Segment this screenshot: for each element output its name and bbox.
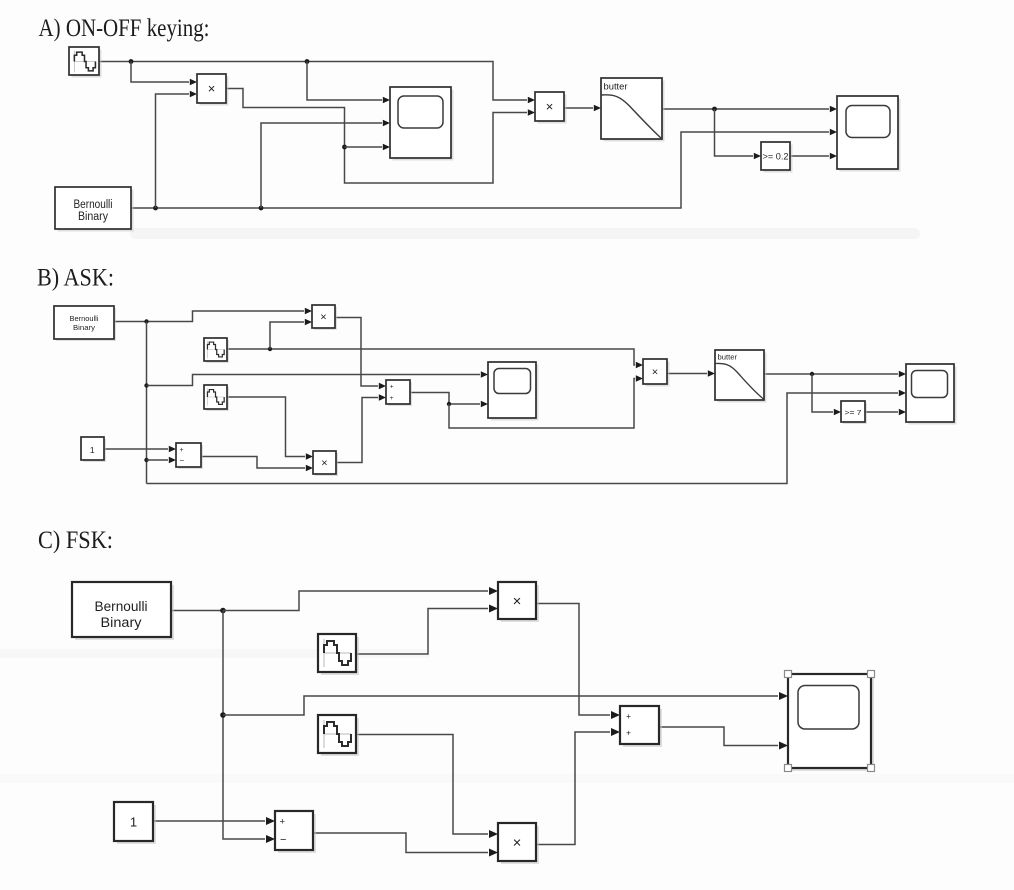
wire: subtract B output to product B2 in2 (201, 457, 313, 472)
scope C (788, 674, 874, 771)
svg-text:+: + (180, 447, 184, 454)
wire: subtract C output to product C2 in2 (313, 833, 498, 857)
wire: butter B output to scope B2 in1 (764, 371, 906, 378)
Bernoulli Binary A (55, 187, 134, 232)
svg-text:B) ASK:: B) ASK: (37, 265, 114, 292)
svg-text:×: × (546, 99, 554, 114)
wire: sine B1 branch to product B1 in2 (270, 319, 312, 349)
wire: constant B output to subtract B in1 (104, 446, 176, 453)
wire: Bernoulli C output (171, 610, 223, 612)
wire: branch to compare B input (812, 374, 841, 415)
node: junction butter A output (712, 107, 717, 112)
wire: branch to compare A input (715, 109, 762, 159)
svg-text:Binary: Binary (73, 323, 95, 332)
title C (38, 527, 113, 554)
node: junction on product A1 route feeding scope A1 in3 (342, 145, 347, 150)
wire: constant C output to subtract C in1 (153, 817, 275, 825)
selection handle scope C bottom-right (868, 765, 875, 772)
svg-text:+: + (626, 711, 631, 721)
wire: Bernoulli B vertical bus (146, 322, 148, 484)
wire: pulse gen A output to product A2 in1 (99, 62, 535, 104)
svg-text:×: × (321, 458, 327, 470)
wire: branch to scope A1 in3 (345, 144, 391, 151)
wire: product B1 output to sum B in1 (335, 318, 386, 390)
product B2 (313, 451, 338, 476)
node: junction sine B1 output (268, 347, 272, 351)
wire: product B3 output to butter B (667, 370, 715, 377)
scope B1 (488, 362, 539, 421)
wire: sum C output to scope C in2 (659, 727, 788, 750)
node: junction Bernoulli B bus mid (144, 383, 148, 387)
sine wave C2 (318, 715, 359, 756)
wire: sine C1 output to product C1 in2 (356, 605, 498, 655)
svg-text:−: − (180, 456, 185, 465)
Bernoulli Binary B (54, 306, 116, 341)
product C1 (498, 582, 539, 622)
svg-text:Bernoulli: Bernoulli (95, 599, 148, 614)
sine wave C1 (318, 634, 359, 675)
Bernoulli Binary C (72, 582, 174, 640)
node: junction Bernoulli B output (144, 319, 148, 323)
wire: Bernoulli A branch to scope A1 in2 (261, 120, 390, 208)
wire: branch to product C1 in1 (223, 587, 498, 611)
svg-text:Binary: Binary (78, 211, 108, 223)
compare B (>= 7) (841, 401, 867, 424)
node: junction butter B output (810, 372, 814, 376)
svg-text:butter: butter (604, 82, 628, 92)
node: junction sum B route (447, 402, 451, 406)
svg-text:>= 7: >= 7 (845, 408, 862, 417)
wire: pulse A branch to product A1 in1 (131, 62, 197, 86)
wire: Bernoulli A branch to product A1 in2 (156, 91, 198, 208)
svg-text:+: + (626, 728, 631, 738)
svg-text:×: × (208, 81, 216, 96)
svg-text:butter: butter (718, 353, 738, 362)
wire: sum B route continues to product B3 in2 (449, 375, 643, 428)
wire: product B2 output to sum B in2 (336, 394, 386, 462)
svg-text:×: × (513, 835, 522, 852)
svg-text:+: + (280, 817, 286, 828)
wire: sine B1 output long line to product B3 in1 (227, 349, 643, 368)
wire: butter A output to scope A2 in1 (662, 106, 837, 113)
scope A2 (837, 96, 901, 172)
compare A (>= 0.2) (761, 142, 793, 173)
subtract C (275, 811, 316, 853)
title A (39, 15, 210, 42)
svg-text:Bernoulli: Bernoulli (70, 314, 99, 323)
svg-text:×: × (652, 367, 658, 379)
scope A1 (390, 87, 454, 161)
svg-text:C) FSK:: C) FSK: (38, 527, 113, 554)
node: junction Bernoulli A line to scope A1 in2 (259, 206, 264, 211)
wire: product A2 output to butter A (564, 105, 601, 112)
svg-text:1: 1 (90, 445, 95, 455)
butter filter B (715, 350, 767, 403)
node: junction Bernoulli C lower (220, 712, 226, 718)
scope B2 (906, 364, 957, 425)
selection handle scope C top-right (868, 671, 875, 678)
wire: product C2 output to sum C in2 (536, 728, 620, 845)
svg-text:×: × (320, 312, 326, 324)
node: junction Bernoulli A line to product A1 in2 (153, 206, 158, 211)
constant B (1) (81, 437, 106, 462)
svg-text:×: × (513, 593, 522, 610)
sine wave B2 (204, 385, 229, 411)
node: junction Bernoulli B bus low (144, 458, 148, 462)
wire: sine B2 output to product B2 in1 (227, 397, 313, 460)
wire: Bernoulli B branch to subtract B in2 (147, 457, 177, 464)
butter filter A (601, 78, 665, 142)
sum C (620, 706, 662, 747)
wire: pulse A branch to scope A1 in1 (307, 62, 390, 104)
title B (37, 265, 114, 292)
wire: Bernoulli A output long line to scope A2 in2 (131, 129, 837, 208)
sum B (386, 380, 412, 406)
node: junction on pulse A line feeding scope A1 (305, 59, 310, 64)
wire: Bernoulli B output to product B1 in1 (114, 308, 312, 322)
product B3 (643, 359, 670, 387)
svg-text:1: 1 (130, 815, 137, 830)
subtract B (176, 443, 203, 469)
wire: product A1 output routed to product A2 in2 (226, 89, 535, 184)
product A2 (535, 92, 567, 124)
svg-text:+: + (390, 384, 394, 391)
svg-text:−: − (280, 834, 286, 846)
product C2 (498, 823, 539, 864)
svg-text:A) ON-OFF keying:: A) ON-OFF keying: (39, 15, 210, 42)
node: junction Bernoulli C upper (220, 608, 226, 614)
product A1 (197, 74, 229, 106)
wire: Bernoulli C vertical bus (223, 611, 275, 844)
wire: Bernoulli B feedback bottom line to scope B2 in2 (147, 390, 907, 484)
constant C (1) (114, 802, 156, 844)
sine wave B1 (204, 338, 229, 363)
svg-text:>= 0.2: >= 0.2 (763, 152, 789, 162)
wire: sine C2 output to product C2 in1 (356, 735, 498, 839)
selection handle scope C bottom-left (785, 765, 792, 772)
wire: branch to scope C in1 (223, 692, 788, 715)
svg-text:Binary: Binary (101, 615, 142, 630)
wire: sum B output to scope B1 in2 (410, 393, 488, 408)
svg-text:Bernoulli: Bernoulli (74, 199, 113, 211)
node: junction on pulse A line feeding product A1 (129, 59, 134, 64)
wire: Bernoulli B branch to scope B1 in1 (147, 371, 489, 385)
product B1 (312, 305, 337, 330)
selection handle scope C top-left (785, 671, 792, 678)
wire: compare B output to scope B2 in3 (865, 409, 906, 416)
svg-text:+: + (390, 395, 394, 402)
wire: product C1 output to sum C in1 (536, 604, 620, 720)
wire: compare A output to scope A2 in3 (790, 153, 837, 160)
pulse generator A (69, 47, 102, 78)
